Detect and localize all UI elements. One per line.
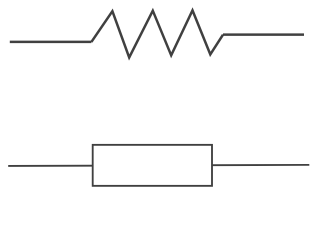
wire: right lead of box resistor — [212, 164, 309, 166]
wire: left lead of box resistor — [8, 165, 93, 167]
wire: right lead of zigzag resistor — [223, 33, 304, 36]
resistor R1 (ANSI zigzag symbol) — [91, 10, 223, 57]
wire: left lead of zigzag resistor — [10, 41, 92, 44]
resistor R2 (IEC box symbol) — [93, 145, 212, 186]
